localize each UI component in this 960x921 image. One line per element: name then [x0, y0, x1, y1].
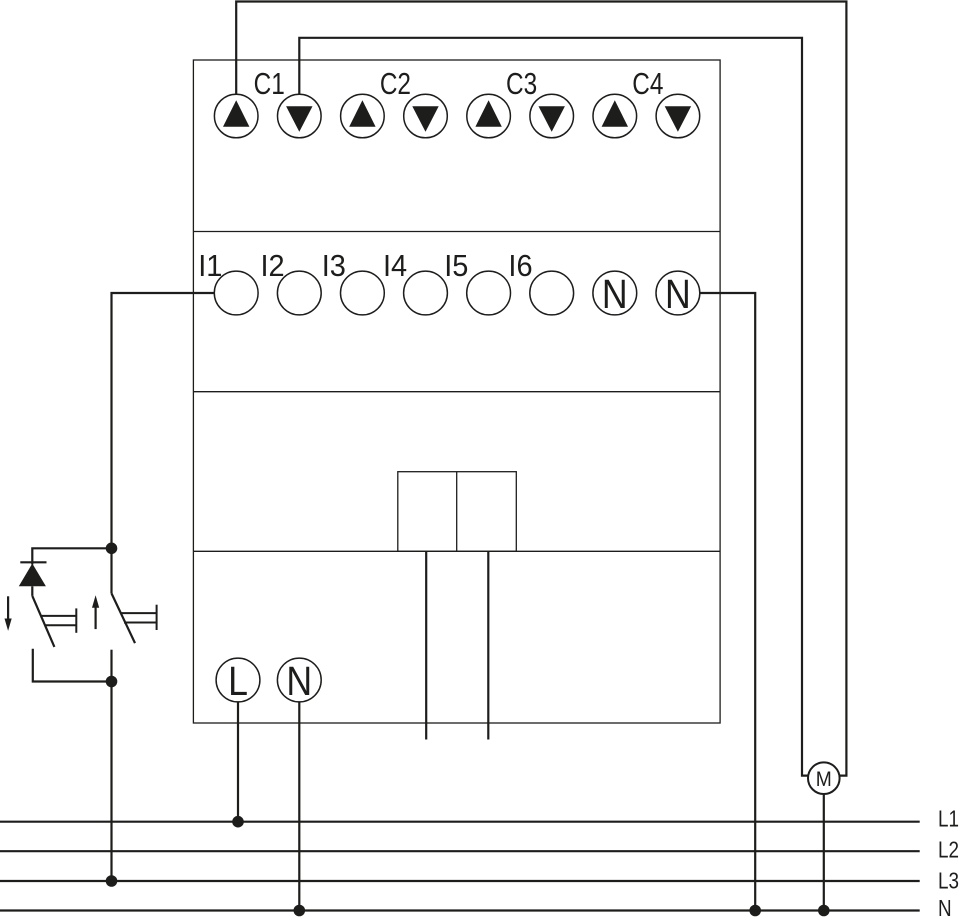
terminal C4 up — [593, 94, 637, 138]
terminal C4 down — [656, 94, 700, 138]
junction switch top — [106, 543, 118, 555]
bus line L3 — [0, 880, 920, 882]
terminal C2 up — [341, 94, 385, 138]
terminal N2 — [656, 271, 700, 315]
bus line N — [0, 909, 920, 911]
wire left contact bottom — [33, 649, 112, 682]
svg-text:N: N — [286, 659, 312, 705]
svg-text:N: N — [602, 272, 628, 318]
wire N to N bus — [298, 702, 300, 911]
junction N2/N bus — [749, 905, 761, 917]
wire C1-down to motor (inner top) — [299, 38, 808, 776]
terminal N bottom — [277, 658, 321, 702]
svg-text:I2: I2 — [261, 249, 285, 283]
limit-stop bar — [20, 561, 46, 563]
wire right contact bottom — [110, 650, 112, 682]
junction L/L1 — [232, 816, 244, 828]
input I1 — [214, 271, 258, 315]
input I6 — [530, 271, 574, 315]
limit-stop triangle — [19, 564, 46, 587]
svg-text:I5: I5 — [444, 249, 468, 283]
svg-text:C3: C3 — [506, 66, 537, 100]
connector block — [398, 472, 517, 552]
device box — [193, 60, 720, 723]
switch blade up-contact — [112, 593, 136, 643]
svg-text:L3: L3 — [938, 869, 959, 894]
input I4 — [404, 271, 448, 315]
junction switch/L3 — [106, 875, 118, 887]
svg-text:N: N — [938, 896, 952, 921]
junction motor/N bus — [818, 905, 830, 917]
input I2 — [277, 271, 321, 315]
actuator T-bar right — [156, 605, 158, 630]
wire C1-up to motor (outer top) — [236, 2, 846, 776]
wire I1 to switch — [112, 293, 215, 548]
svg-text:C2: C2 — [380, 66, 411, 100]
connector wire right — [487, 551, 489, 739]
svg-text:I4: I4 — [383, 249, 407, 283]
terminal C3 up — [467, 94, 511, 138]
svg-text:I1: I1 — [198, 249, 222, 283]
svg-text:C1: C1 — [254, 66, 285, 100]
input I5 — [467, 271, 511, 315]
bus line L1 — [0, 821, 920, 823]
actuator bars right — [121, 612, 156, 614]
svg-text:I6: I6 — [508, 249, 532, 283]
svg-text:C4: C4 — [632, 66, 663, 100]
wire switch to L3 — [110, 682, 112, 882]
arrow up — [94, 604, 96, 629]
divider line 2 — [193, 391, 720, 393]
terminal N1 — [593, 271, 637, 315]
wire switch branch left — [32, 548, 111, 564]
svg-text:I3: I3 — [322, 249, 346, 283]
divider line 3 — [193, 550, 720, 552]
svg-text:L1: L1 — [938, 807, 959, 832]
junction switch bottom — [106, 676, 118, 688]
wire N2 to N bus — [700, 293, 755, 911]
bus line L2 — [0, 850, 920, 852]
actuator bars left — [42, 615, 76, 617]
wire motor to N bus — [823, 794, 825, 911]
terminal L — [216, 658, 260, 702]
switch blade down-contact — [32, 596, 54, 647]
svg-text:N: N — [665, 272, 691, 318]
wire L to L1 bus — [237, 702, 239, 822]
switch blade up-contact stub — [110, 548, 112, 593]
divider line 1 — [193, 231, 720, 233]
terminal C3 down — [530, 94, 574, 138]
motor M — [808, 762, 840, 794]
connector block divider — [456, 472, 458, 552]
terminal C1 down — [278, 94, 322, 138]
junction N/N bus — [294, 905, 306, 917]
svg-text:L: L — [228, 659, 248, 705]
input I3 — [341, 271, 385, 315]
connector wire left — [425, 551, 427, 739]
svg-text:L2: L2 — [938, 838, 959, 863]
terminal C1 up — [214, 94, 258, 138]
wire triangle to blade — [31, 586, 33, 596]
svg-text:M: M — [816, 768, 832, 791]
arrow down — [7, 596, 9, 622]
actuator T-bar left — [75, 608, 77, 632]
terminal C2 down — [404, 94, 448, 138]
